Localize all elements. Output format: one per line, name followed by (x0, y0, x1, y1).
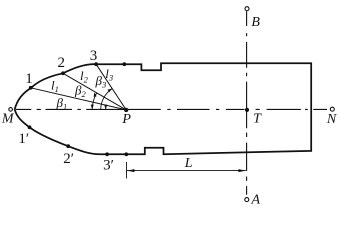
arrow beta3 (up-right, at P-3 line end) (108, 88, 113, 92)
point 2 (61, 71, 65, 75)
arrow beta2 (up, at P-2 line end) (94, 92, 97, 97)
svg-text:M: M (1, 111, 15, 126)
L dimension extension line (126, 162, 128, 178)
line P-1 (31, 88, 127, 110)
svg-text:N: N (326, 112, 337, 127)
svg-text:2: 2 (57, 55, 65, 71)
svg-text:1′: 1′ (18, 131, 29, 147)
point on top body line (122, 62, 126, 66)
svg-text:1: 1 (25, 71, 33, 87)
svg-text:P: P (121, 112, 131, 127)
centerline M-N (dash-dot axis) (16, 108, 327, 110)
vertical axis A-B dash-dot through T (246, 11, 248, 195)
line P-3 (96, 64, 126, 110)
svg-text:A: A (251, 192, 261, 207)
point 3 (94, 62, 98, 66)
svg-text:3′: 3′ (103, 157, 114, 173)
L dimension line (127, 170, 246, 172)
point T (245, 108, 249, 112)
open circle M (9, 108, 13, 112)
svg-text:B: B (251, 15, 260, 30)
angle arc beta1 (r=20.5 from axis to P-1) (105, 105, 108, 110)
angle arc beta3 (r=25.5 from axis to P-3) (101, 89, 112, 110)
svg-text:3: 3 (90, 48, 98, 64)
svg-text:T: T (253, 111, 262, 126)
point P (124, 108, 128, 112)
point on bottom body line (L start) (124, 152, 128, 156)
open circle N (330, 107, 334, 111)
projectile outline (15, 63, 312, 154)
L arrow right (238, 169, 246, 172)
open circle A (245, 198, 249, 202)
point 1' (28, 125, 32, 129)
arrow beta1 (down, at axis end) (104, 105, 107, 110)
point 2' (66, 144, 70, 148)
point 1 (29, 86, 33, 90)
open circle B (245, 7, 249, 11)
angle arc beta2 (r=34 from axis to P-2) (92, 93, 97, 110)
point 3' (105, 152, 109, 156)
L arrow left (127, 169, 134, 172)
line P-2 (63, 73, 126, 110)
svg-text:2′: 2′ (63, 151, 74, 167)
svg-text:L: L (184, 156, 193, 171)
arrow beta2 (down, at axis end) (91, 105, 94, 110)
